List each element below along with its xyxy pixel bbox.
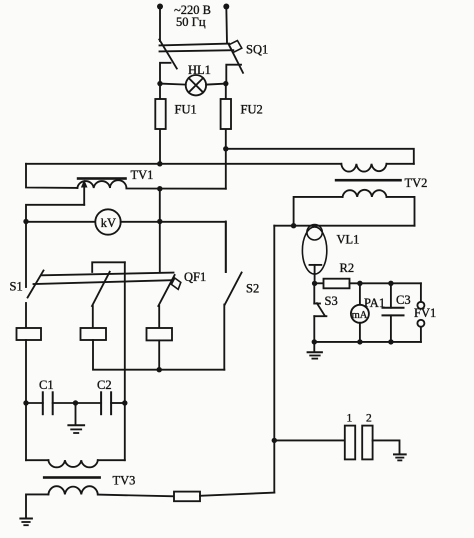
wire TV1 tap to kV rail [26, 205, 84, 222]
SQ1 left lower contact tick [160, 63, 171, 84]
switch S2 blade [225, 273, 242, 305]
transformer TV1 core bar [77, 177, 127, 180]
svg-text:50 Гц: 50 Гц [176, 15, 206, 29]
svg-text:C3: C3 [396, 293, 411, 307]
node dot PA1 top [357, 281, 362, 286]
wire TV1 output (winding end to FU2 drop) [126, 188, 225, 190]
node dot kV rail / pole3 [157, 219, 162, 224]
electrode plate 1 [345, 426, 355, 460]
switch SQ1 linkage bar lower [160, 50, 234, 51]
capacitor C2 [101, 392, 111, 414]
wire pole3 to link line [158, 340, 160, 369]
node dot HL1 right [223, 81, 228, 86]
fuse FU2 [221, 99, 231, 129]
wire from right terminal to SQ1 [225, 7, 228, 44]
breaker QF1 handle (rotated square) [171, 278, 180, 289]
transformer TV3 primary winding [48, 460, 97, 467]
wire from left terminal to SQ1 [159, 7, 161, 42]
breaker QF1 linkage bar upper [42, 273, 174, 276]
wire measuring bottom rail [314, 341, 421, 343]
node dot cathode / R2 line [312, 281, 317, 286]
wire pole2 to link line [93, 340, 224, 370]
node dot kV rail left [23, 219, 28, 224]
lamp HL1 [186, 75, 206, 95]
node dot FU2 to rail A [223, 146, 228, 151]
wire left pole to FU1 [159, 84, 161, 164]
wire kV rail left segment [26, 221, 95, 223]
svg-text:FU2: FU2 [241, 103, 263, 117]
terminal dot right (~220V input) [223, 4, 229, 10]
svg-text:TV2: TV2 [405, 176, 428, 190]
breaker QF1 middle pole frame [92, 262, 125, 272]
wire pole1 lower [25, 303, 27, 328]
transformer TV3 primary left corner [26, 459, 48, 461]
ground TV3 secondary [20, 519, 32, 526]
wire measuring caps line [274, 439, 345, 441]
contact block pole3 [147, 328, 173, 340]
switch S3 [314, 283, 326, 342]
svg-text:C2: C2 [97, 378, 112, 392]
wire S1 upper [25, 222, 27, 288]
wire capacitor line segment 3 [111, 402, 125, 404]
node dot FU1 to rail B [157, 161, 162, 166]
wire rail B (TV1 corner to TV2 primary winding) [26, 163, 341, 165]
transformer TV2 primary winding [341, 164, 386, 172]
ground right bottom [394, 454, 406, 460]
wire S2 lower [223, 305, 225, 370]
switch S2 wire upper [225, 222, 227, 273]
wire pole3 vertical (TV1 output down to QF1) [159, 189, 161, 272]
breaker QF1 right blade [158, 275, 174, 306]
svg-text:FU1: FU1 [175, 103, 197, 117]
node dot TV1 output / pole3 branch [157, 186, 162, 191]
svg-text:QF1: QF1 [184, 270, 206, 284]
tube VL1 envelope [302, 227, 326, 274]
transformer TV1 tap arrow [81, 180, 88, 205]
transformer TV3 core bar [43, 476, 101, 479]
wire TV2 secondary right lead [387, 197, 415, 226]
wire anode line [274, 225, 414, 227]
node dot PA1 bottom [357, 339, 362, 344]
node dot pole3 link [157, 367, 162, 372]
svg-text:TV1: TV1 [131, 168, 154, 182]
wire TV3 secondary output left segment [98, 495, 174, 497]
node dot HL1 left [157, 81, 162, 86]
wire frame vertical lower (cap line to TV3) [124, 403, 126, 460]
breaker QF1 middle blade [92, 272, 110, 306]
transformer TV3 secondary left lead to ground [26, 494, 48, 517]
svg-text:SQ1: SQ1 [246, 43, 268, 57]
fuse FU1 [155, 99, 165, 129]
switch SQ1 linkage bar upper [160, 44, 230, 46]
node dot TV2 secondary to HV return [291, 223, 296, 228]
node dot HV return / measuring caps line [272, 438, 277, 443]
svg-text:S1: S1 [10, 280, 23, 294]
switch SQ1 right blade [230, 47, 243, 73]
wire QF1 frame right side down to capacitor line [124, 262, 126, 403]
node dot bottom rail left [312, 339, 317, 344]
wire HL1 right [206, 84, 226, 85]
capacitor C1 [43, 392, 53, 414]
wire R2 line left [315, 282, 324, 284]
resistor R2 [324, 279, 350, 289]
wire pole3 lower [158, 306, 160, 328]
svg-text:1: 1 [347, 413, 353, 425]
switch S1 blade [28, 271, 44, 298]
wire TV2 primary right lead [387, 163, 414, 165]
terminal dot left (~220V input) [157, 4, 163, 10]
capacitor C3 [383, 283, 404, 342]
tube VL1 cathode [310, 265, 322, 284]
wire TV1 primary left drop [26, 164, 77, 188]
transformer TV2 core bar [335, 179, 402, 182]
wire plate 2 to ground [373, 440, 400, 453]
wire R2 line right [350, 282, 421, 284]
node dot capacitor line middle (ground) [73, 400, 78, 405]
contact block pole2 [81, 328, 107, 340]
wire right pole to FU2 [225, 84, 227, 189]
wire capacitor line segment 1 [26, 402, 43, 404]
node dot C3 top [388, 281, 393, 286]
wire TV3 secondary output right segment [200, 493, 274, 496]
svg-text:S2: S2 [246, 282, 259, 296]
wire pole1 to capacitor line [25, 340, 27, 460]
wire rail A (FU2 to TV2 primary loop) [226, 149, 414, 164]
SQ1 right lower contact tick [226, 65, 241, 84]
transformer TV1 winding [77, 180, 126, 188]
wire capacitor line segment 2 [53, 402, 101, 404]
switch SQ1 handle (rotated square) [229, 41, 242, 53]
svg-text:R2: R2 [340, 261, 355, 275]
node dot C3 bottom [388, 339, 393, 344]
svg-text:kV: kV [101, 216, 116, 230]
node dot capacitor line left [23, 400, 28, 405]
transformer TV3 secondary winding [48, 486, 97, 494]
svg-text:S3: S3 [325, 294, 338, 308]
svg-text:C1: C1 [39, 378, 54, 392]
tube VL1 anode circle [307, 225, 322, 240]
electrode plate 2 [362, 426, 372, 460]
svg-text:TV3: TV3 [113, 474, 136, 488]
wire kV rail right segment [121, 222, 226, 272]
wire HL1 left [160, 84, 186, 85]
wire TV2 secondary left lead [294, 197, 343, 226]
svg-text:VL1: VL1 [337, 233, 360, 247]
breaker QF1 linkage bar lower [34, 280, 172, 284]
resistor on TV3 output line [174, 492, 200, 502]
transformer TV3 primary right lead [98, 459, 125, 461]
ground below capacitor line [68, 403, 84, 433]
voltmeter kV [95, 209, 120, 234]
svg-text:2: 2 [366, 413, 372, 425]
contact block pole1 [17, 328, 42, 340]
ground measuring circuit [308, 342, 322, 359]
wire pole2 lower [92, 306, 94, 328]
svg-text:mA: mA [352, 310, 368, 321]
svg-text:FV1: FV1 [414, 306, 436, 320]
node dot capacitor line right [122, 400, 127, 405]
switch SQ1 left blade [159, 40, 177, 69]
wire long vertical HV return [273, 226, 275, 493]
ammeter PA1 [351, 283, 369, 342]
discharger FV1 [417, 283, 424, 342]
transformer TV2 secondary winding [343, 190, 387, 197]
